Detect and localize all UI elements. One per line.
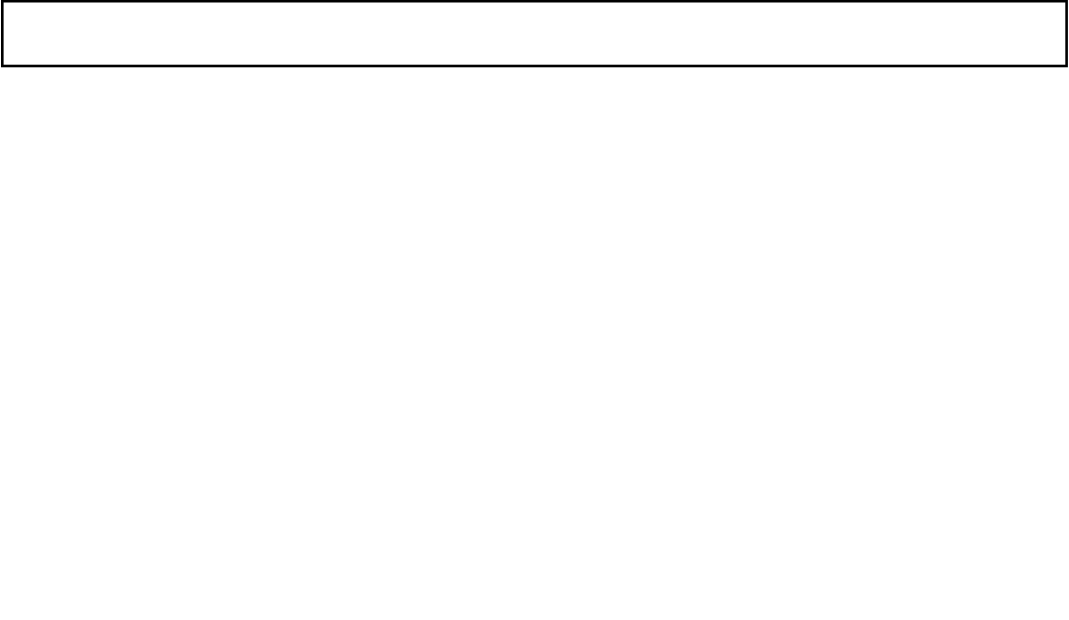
header title box: [2, 1, 1066, 66]
